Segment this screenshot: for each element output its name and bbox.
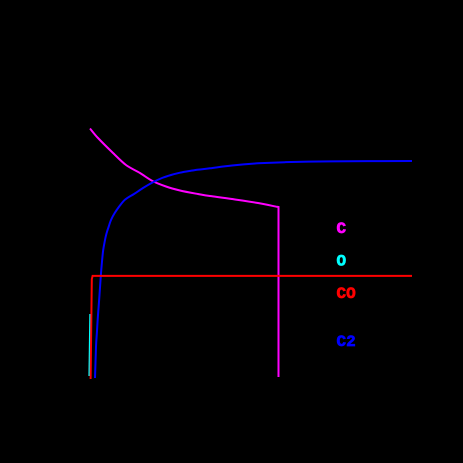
svg-text:CO: CO — [337, 285, 357, 303]
curve CO (red) — [91, 276, 412, 379]
svg-text:C2: C2 — [337, 333, 356, 351]
svg-text:O: O — [337, 253, 347, 271]
curve O (cyan) — [88, 314, 91, 376]
curve C2 (blue) — [95, 161, 412, 378]
svg-text:C: C — [337, 220, 347, 238]
curve C (magenta) — [90, 129, 279, 378]
